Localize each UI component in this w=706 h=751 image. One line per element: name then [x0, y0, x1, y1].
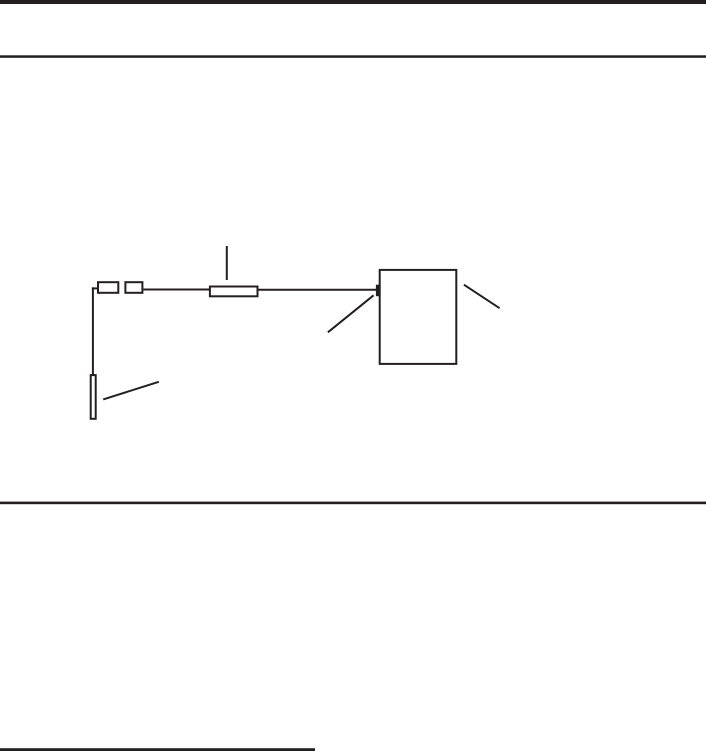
leader line: right of unit: [464, 285, 500, 309]
wire: vertical lead above resistor: [226, 246, 228, 280]
resistor (long box): [210, 287, 258, 297]
unit box: [380, 270, 457, 364]
header rule: [0, 55, 706, 58]
section rule: [0, 502, 706, 505]
plug element (thin tall box): [91, 375, 96, 419]
wire: box2 to resistor: [143, 289, 210, 291]
connector box 2: [125, 282, 142, 293]
leader line: to plug element: [103, 382, 159, 400]
wire: resistor to unit pin: [259, 289, 377, 291]
wire: left vertical drop: [92, 287, 94, 374]
footnote rule (bottom-left): [0, 748, 315, 751]
wire: stub from left vertical to cap box: [92, 287, 99, 289]
pin pad on unit: [376, 285, 380, 297]
header bar: [0, 0, 706, 4]
connector box 1: [98, 282, 118, 293]
leader line: lower-left to pin: [328, 295, 374, 332]
